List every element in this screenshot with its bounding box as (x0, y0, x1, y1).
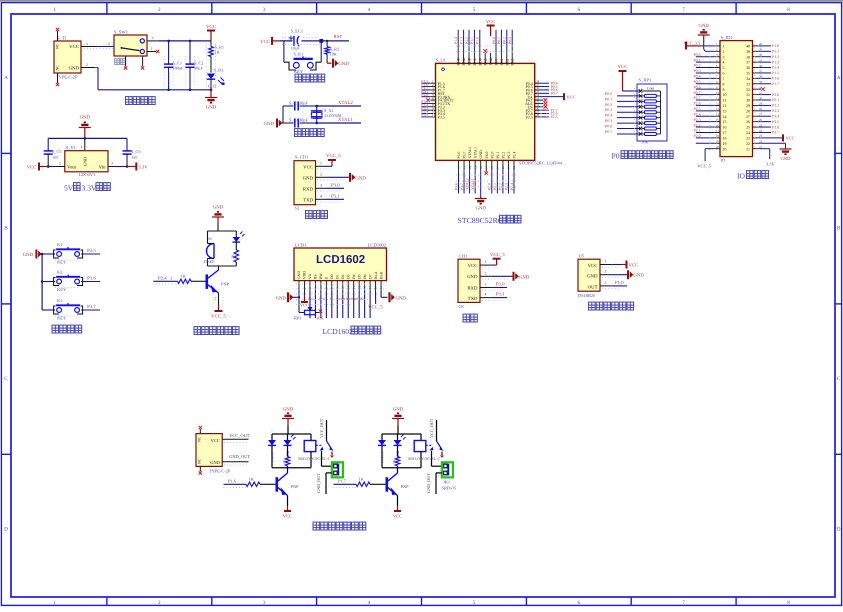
title download port (306, 211, 313, 219)
svg-text:GND: GND (355, 175, 366, 181)
svg-text:B: B (837, 225, 841, 231)
connector JK2 SRD-05 terminal block (442, 462, 453, 477)
svg-text:5V: 5V (64, 184, 74, 193)
svg-text:VCC: VCC (303, 164, 313, 170)
svg-text:P0.6: P0.6 (605, 124, 612, 129)
wire relay 2 pole to connector (431, 451, 433, 466)
svg-text:2: 2 (320, 172, 322, 176)
svg-text:Com: Com (647, 87, 654, 91)
svg-text:VCC: VCC (260, 39, 270, 45)
svg-text:GND_OUT: GND_OUT (229, 454, 250, 459)
svg-text:GND: GND (210, 460, 221, 465)
svg-text:P3.7: P3.7 (87, 304, 96, 310)
svg-text:VCC: VCC (786, 136, 795, 141)
power port VCC_5 download (328, 159, 336, 161)
pin S_V1.2 Vout (56, 166, 65, 168)
svg-text:GND: GND (303, 175, 314, 181)
svg-text:11: 11 (352, 286, 356, 289)
svg-text:15: 15 (374, 285, 378, 289)
svg-text:P3.5: P3.5 (87, 248, 96, 254)
svg-text:30pF: 30pF (299, 101, 308, 106)
wire bottom rail GND (98, 89, 211, 91)
wire alarm base (153, 280, 177, 282)
pin CH1.4 TXD to P3.1 (480, 297, 492, 299)
svg-text:25: 25 (746, 126, 750, 130)
svg-text:5: 5 (473, 600, 476, 606)
svg-text:D6: D6 (363, 274, 367, 279)
svg-text:28: 28 (536, 113, 540, 117)
svg-text:XTAL1: XTAL1 (471, 178, 475, 190)
svg-text:VO: VO (308, 273, 312, 279)
pin S_CH1.2 GND (316, 176, 328, 178)
svg-text:VCC_5: VCC_5 (490, 252, 505, 258)
wire relay 1 GND_OUT (326, 472, 332, 474)
svg-text:14: 14 (723, 115, 727, 119)
svg-text:VCC: VCC (206, 24, 216, 30)
svg-text:13: 13 (462, 166, 466, 170)
svg-text:14: 14 (468, 166, 472, 170)
svg-text:VDD: VDD (303, 271, 307, 279)
svg-text:10: 10 (346, 285, 350, 289)
svg-text:RST: RST (334, 34, 343, 40)
svg-text:13: 13 (363, 285, 367, 289)
svg-text:P1.1: P1.1 (470, 37, 474, 44)
svg-text:D1: D1 (335, 274, 339, 279)
wire net P0.0 rp1 (617, 95, 637, 97)
svg-text:VCC_OUT: VCC_OUT (229, 433, 250, 438)
svg-text:P2.6: P2.6 (694, 102, 701, 106)
svg-text:10uF: 10uF (291, 46, 301, 51)
svg-text:VCC: VCC (567, 94, 576, 99)
svg-text:10: 10 (723, 93, 727, 97)
svg-text:P1.3: P1.3 (459, 37, 463, 44)
relay coil K1 (310, 434, 312, 441)
pin S_CH1.1 VCC_5 (316, 165, 328, 167)
svg-text:31: 31 (746, 93, 750, 97)
svg-text:16: 16 (379, 285, 383, 289)
pin U5.1 to VCC (600, 264, 612, 266)
svg-text:1: 1 (605, 260, 607, 264)
svg-text:LDO3V3: LDO3V3 (79, 172, 96, 177)
wire reset right vertical (320, 41, 322, 62)
svg-text:P0.0: P0.0 (605, 91, 612, 96)
svg-text:3: 3 (263, 7, 266, 13)
svg-text:43: 43 (462, 58, 466, 62)
svg-text:P1.3: P1.3 (772, 60, 779, 64)
svg-text:RXD: RXD (303, 186, 314, 192)
pin T2 VCC_OUT (222, 438, 248, 440)
svg-text:39: 39 (483, 58, 487, 62)
svg-text:VCC_5: VCC_5 (211, 314, 226, 320)
resistor S_R1 1K (210, 41, 212, 47)
svg-text:P0.3: P0.3 (605, 107, 612, 112)
wire relay 1 pole to connector (321, 451, 323, 466)
svg-text:P2.6: P2.6 (319, 297, 325, 301)
svg-text:VCC: VCC (588, 263, 598, 269)
svg-text:XTAL1: XTAL1 (338, 117, 353, 123)
resistor S_RP1 element 7 P0.6 (639, 127, 643, 131)
svg-text:P3.5: P3.5 (772, 120, 779, 124)
svg-text:P0.6: P0.6 (694, 85, 701, 89)
svg-text:3: 3 (605, 281, 607, 285)
svg-text:1: 1 (53, 7, 56, 13)
svg-text:10K: 10K (330, 51, 338, 56)
svg-text:P2.0: P2.0 (694, 134, 701, 138)
svg-text:6: 6 (577, 7, 580, 13)
wire S_T1.1 to S_SW1.2 (95, 46, 115, 48)
wire net P0.4 rp1 (617, 117, 637, 119)
svg-text:P2.5: P2.5 (526, 115, 533, 120)
svg-text:1: 1 (53, 600, 56, 606)
resistor R1b 1K relay led (287, 445, 289, 456)
svg-text:S_D1: S_D1 (214, 68, 224, 73)
svg-text:P1.4: P1.4 (772, 66, 779, 70)
svg-text:35: 35 (746, 72, 750, 76)
pin S_SW1.1 no-connect (147, 51, 156, 53)
svg-text:A: A (837, 75, 841, 81)
svg-text:P0.3: P0.3 (694, 69, 701, 73)
svg-text:30pF: 30pF (299, 118, 308, 123)
svg-text:P1.4: P1.4 (454, 37, 458, 44)
svg-text:7: 7 (682, 600, 685, 606)
resistor S_RP1 element 5 P0.4 (639, 116, 643, 120)
svg-text:5: 5 (723, 66, 725, 70)
resistor S_RP1 element 6 P0.5 (639, 121, 643, 125)
wire collector link (218, 266, 220, 270)
svg-text:3.3V: 3.3V (82, 184, 97, 193)
svg-text:P3.7: P3.7 (463, 152, 467, 159)
svg-text:D4: D4 (352, 274, 356, 279)
svg-text:TYPE-C-2P: TYPE-C-2P (209, 469, 231, 474)
wire relay 2 collector (397, 468, 399, 473)
svg-text:Vin: Vin (99, 165, 107, 171)
wire io pin20 to VCC_5 (705, 148, 714, 150)
svg-text:21: 21 (507, 165, 511, 169)
svg-text:C: C (4, 376, 8, 382)
svg-text:P2.1: P2.1 (496, 152, 500, 159)
pin S_V1.3 Vin (108, 166, 114, 168)
svg-text:P1.7: P1.7 (772, 82, 779, 86)
capacitor S_C2 10uF (189, 41, 191, 59)
resistor S_RP1 element 3 P0.2 (639, 105, 643, 109)
svg-text:37: 37 (746, 61, 750, 65)
svg-text:1uF: 1uF (52, 155, 59, 160)
svg-text:BLA: BLA (374, 271, 378, 279)
svg-text:P0.1: P0.1 (694, 58, 701, 62)
potentiometer RP1 10K (299, 312, 305, 314)
svg-text:P1.2: P1.2 (465, 37, 469, 44)
wire net P0.7 rp1 (617, 133, 637, 135)
svg-text:33: 33 (746, 82, 750, 86)
svg-text:16: 16 (479, 166, 483, 170)
wire relay 1 VCC_OUT vertical (326, 420, 328, 441)
svg-text:1K: 1K (249, 477, 255, 482)
svg-text:S_SW1: S_SW1 (114, 30, 129, 35)
svg-text:2: 2 (605, 270, 607, 274)
svg-text:STC89C52RC_LQFP44: STC89C52RC_LQFP44 (519, 161, 563, 166)
svg-text:GND: GND (283, 407, 294, 413)
wire net P0.1 rp1 (617, 100, 637, 102)
svg-text:7: 7 (723, 77, 725, 81)
wire relay 1 top rail (272, 433, 311, 435)
svg-text:P0.5: P0.5 (605, 118, 612, 123)
relay 1 NO contact (331, 452, 333, 456)
svg-text:XTAL2: XTAL2 (468, 147, 472, 159)
power port 3.3V (135, 163, 137, 171)
svg-text:P0.5: P0.5 (694, 80, 701, 84)
ground GND power circuit (210, 90, 212, 98)
svg-text:1K: 1K (181, 274, 187, 279)
svg-text:P2.4: P2.4 (158, 275, 167, 281)
svg-text:1N4007: 1N4007 (271, 451, 275, 463)
svg-text:P3.3: P3.3 (772, 109, 779, 113)
relay 1 switch arm (327, 441, 332, 449)
svg-text:P2.1: P2.1 (694, 129, 701, 133)
svg-text:21: 21 (746, 147, 750, 151)
svg-text:16: 16 (723, 126, 727, 130)
connector T2 TYPE-C-2P output (196, 434, 222, 467)
svg-text:3.3V: 3.3V (766, 162, 776, 167)
wire S_T1.2 down to bottom rail (95, 67, 98, 69)
wire vcc to Vout pin (48, 166, 56, 168)
svg-text:3.3V: 3.3V (138, 164, 148, 170)
svg-text:NC: NC (198, 458, 202, 464)
svg-text:P3.6: P3.6 (87, 276, 96, 282)
wire K1 to P3.5 (81, 253, 100, 255)
wire K3 to P3.7 (81, 309, 100, 311)
svg-text:C: C (837, 376, 841, 382)
title temperature module (589, 302, 596, 310)
svg-text:5: 5 (473, 7, 476, 13)
svg-text:P2.2: P2.2 (501, 152, 505, 159)
wire emitter to VCC_5 (218, 293, 220, 304)
key K3 (42, 309, 55, 311)
svg-text:GND: GND (393, 407, 404, 413)
svg-text:LCD1602: LCD1602 (316, 254, 365, 266)
svg-text:GND: GND (69, 66, 80, 72)
svg-text:10K: 10K (316, 316, 324, 321)
svg-text:GND: GND (338, 61, 349, 67)
title power circuit (126, 97, 133, 105)
svg-text:BEEP: BEEP (204, 259, 215, 264)
svg-text:P1.2: P1.2 (772, 55, 779, 59)
svg-text:RW: RW (319, 273, 323, 279)
pin CH1.2 GND (480, 275, 492, 277)
diode D2a 1N4007 flyback (381, 434, 383, 440)
svg-text:P2.4: P2.4 (694, 112, 701, 116)
svg-text:P2.3: P2.3 (507, 152, 511, 159)
svg-text:P3.7: P3.7 (460, 183, 464, 190)
svg-text:2: 2 (723, 50, 725, 54)
svg-text:KEY: KEY (294, 69, 304, 74)
title relay control circuit (313, 522, 320, 530)
svg-text:VCC: VCC (618, 64, 628, 70)
ground GND io right (785, 147, 787, 149)
ground GND mcu (480, 196, 482, 199)
svg-text:23: 23 (746, 136, 750, 140)
svg-text:K1: K1 (57, 242, 62, 247)
svg-text:P2.5: P2.5 (694, 107, 701, 111)
svg-text:LCD1: LCD1 (295, 243, 307, 248)
svg-text:44: 44 (489, 58, 493, 62)
svg-text:3: 3 (320, 183, 322, 187)
svg-text:GND: GND (80, 115, 91, 121)
svg-text:P3.5: P3.5 (438, 115, 445, 120)
svg-text:27: 27 (746, 115, 750, 119)
wire alarm bottom rail (208, 265, 237, 267)
svg-text:2: 2 (86, 63, 88, 67)
transistor Q2 PNP relay (387, 473, 398, 496)
svg-text:D: D (837, 526, 841, 532)
wire lcd pin16 BLK to gnd right (380, 291, 382, 297)
LED D2b relay (397, 434, 399, 440)
svg-text:4: 4 (485, 293, 487, 297)
svg-text:P3.4: P3.4 (772, 114, 779, 118)
key K1 (42, 253, 55, 255)
svg-text:2: 2 (158, 600, 161, 606)
wire crystal mid vertical (305, 105, 317, 107)
resistor S_R2 10K (326, 41, 328, 47)
svg-text:36: 36 (746, 66, 750, 70)
svg-text:1K: 1K (393, 459, 397, 464)
svg-text:SRD-05VDC-SL-C: SRD-05VDC-SL-C (298, 456, 331, 461)
svg-text:VCC: VCC (486, 19, 495, 24)
title alarm circuit (194, 327, 201, 335)
svg-text:NC: NC (56, 43, 60, 49)
svg-text:VCC: VCC (629, 263, 639, 269)
LED D2 alarm (235, 231, 237, 237)
svg-text:PNP: PNP (401, 484, 410, 489)
svg-text:P1.0: P1.0 (615, 280, 624, 286)
svg-text:VCC: VCC (300, 303, 309, 308)
switch S_SW1 (114, 35, 147, 56)
svg-text:3: 3 (152, 36, 154, 40)
ground GND download (350, 173, 355, 182)
pins LCD1 1-16 (298, 281, 300, 291)
svg-text:22: 22 (512, 166, 516, 170)
svg-text:6: 6 (723, 72, 725, 76)
resistor S_RP1 element 2 P0.1 (639, 100, 643, 104)
svg-text:4: 4 (368, 600, 371, 606)
svg-text:10K: 10K (641, 140, 649, 145)
svg-text:VCC: VCC (468, 263, 478, 269)
power port VCC temp (626, 261, 628, 269)
svg-text:GND: GND (264, 121, 275, 127)
svg-text:P0.4: P0.4 (694, 75, 701, 79)
wires lcd data pins down (309, 291, 311, 318)
svg-text:P2.3: P2.3 (504, 183, 508, 190)
svg-text:3: 3 (723, 55, 725, 59)
wire relay 2 emitter to VCC (397, 496, 399, 507)
svg-text:P3.6: P3.6 (772, 125, 779, 129)
resistor S_RP1 element 8 P0.7 (639, 132, 643, 136)
capacitor S_C6 1uF (126, 138, 128, 150)
svg-text:P4.0: P4.0 (485, 152, 489, 159)
svg-text:P1.0: P1.0 (476, 37, 480, 44)
svg-text:C8: C8 (459, 304, 465, 309)
svg-text:32: 32 (746, 88, 750, 92)
wire alarm top rail (208, 230, 237, 232)
relay 2 actuation dashed link (426, 444, 432, 446)
pin S_T1.top no-connect (57, 31, 59, 41)
svg-text:3: 3 (111, 162, 113, 166)
svg-text:GND: GND (475, 206, 486, 212)
svg-text:VCC_5: VCC_5 (368, 305, 383, 311)
svg-text:IO: IO (737, 172, 746, 181)
svg-text:D2: D2 (341, 274, 345, 279)
svg-text:D: D (4, 526, 8, 532)
pin U5.3 OUT to P1.0 (600, 285, 612, 287)
svg-text:39: 39 (746, 50, 750, 54)
svg-text:3: 3 (263, 600, 266, 606)
io right nets P3.x (758, 94, 771, 96)
wire reset rail (280, 40, 349, 42)
svg-text:100uF: 100uF (173, 66, 185, 71)
svg-text:P3.1: P3.1 (496, 292, 505, 298)
svg-text:XTAL1: XTAL1 (474, 147, 478, 159)
pin S_T1.2 GND (81, 67, 95, 69)
svg-text:26: 26 (746, 120, 750, 124)
svg-text:19: 19 (496, 166, 500, 170)
svg-text:STC89C52RC: STC89C52RC (458, 216, 504, 225)
svg-text:K3: K3 (57, 298, 63, 303)
svg-text:VCC: VCC (283, 514, 292, 519)
wire relay 1 base (224, 483, 247, 485)
svg-text:4: 4 (723, 61, 725, 65)
svg-text:S2: S2 (295, 206, 300, 211)
svg-text:U5: U5 (579, 253, 585, 258)
svg-text:28: 28 (746, 109, 750, 113)
svg-text:10uF: 10uF (194, 66, 203, 71)
svg-text:SRD-05: SRD-05 (442, 486, 457, 491)
svg-text:DS18B20: DS18B20 (578, 293, 596, 298)
svg-text:P3.2: P3.2 (772, 104, 779, 108)
relay coil K2 (420, 434, 422, 441)
svg-text:IO: IO (721, 158, 726, 163)
wire relay 2 VCC_OUT vertical (436, 420, 438, 441)
svg-text:LCD1602: LCD1602 (323, 327, 354, 336)
svg-text:1: 1 (81, 145, 83, 149)
svg-text:8: 8 (723, 82, 725, 86)
svg-text:P1.0: P1.0 (772, 44, 779, 48)
wire lcd pin1 to gnd (293, 296, 299, 298)
svg-text:P1.5: P1.5 (772, 71, 779, 75)
wire io pin23 VCC (758, 137, 783, 139)
svg-text:P3.1: P3.1 (331, 193, 340, 199)
svg-text:TXD: TXD (303, 197, 313, 203)
svg-text:S_K1: S_K1 (294, 52, 304, 57)
svg-text:RP1: RP1 (294, 316, 302, 321)
svg-text:1K: 1K (283, 459, 287, 464)
transistor Q1 PNP alarm (207, 270, 219, 293)
svg-text:PNP: PNP (221, 282, 230, 287)
io right pin 32 no-connect (758, 88, 761, 90)
svg-text:TYPE-C-2P: TYPE-C-2P (56, 75, 78, 80)
svg-text:P2.1: P2.1 (493, 183, 497, 190)
svg-text:12: 12 (723, 104, 727, 108)
io left nets P0.0-P0.7 and P2.x (696, 56, 715, 58)
svg-text:1: 1 (320, 161, 322, 165)
svg-text:20: 20 (501, 166, 505, 170)
svg-text:GND: GND (23, 252, 34, 258)
svg-text:1K: 1K (359, 477, 365, 482)
svg-text:40: 40 (478, 58, 482, 62)
svg-text:22: 22 (746, 142, 750, 146)
svg-text:P0.2: P0.2 (605, 102, 612, 107)
svg-text:P1.6: P1.6 (772, 77, 779, 81)
svg-text:17: 17 (716, 129, 720, 133)
wire crystal left vertical (280, 122, 283, 124)
